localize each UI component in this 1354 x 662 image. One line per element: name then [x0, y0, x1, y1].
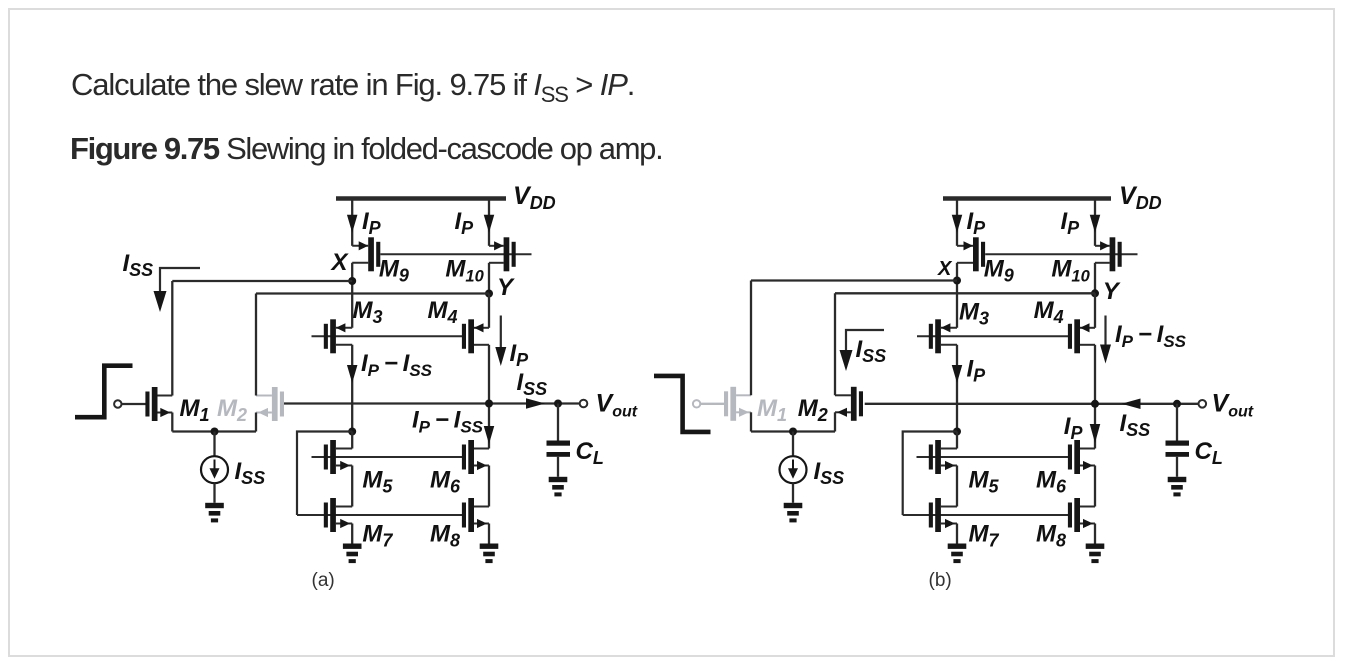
transistor M2 disabled gray (a)	[256, 387, 284, 421]
label Iss annotation (a)	[123, 250, 154, 280]
wire gate line M9-M10 (a)	[380, 253, 531, 255]
svg-text:M4: M4	[1034, 297, 1064, 327]
transistor M1 (a)	[145, 387, 172, 421]
label Iss tail (b)	[814, 458, 845, 488]
label Ip-Iss left branch (a)	[361, 350, 433, 380]
label Ip left branch (a)	[362, 208, 382, 238]
svg-text:X: X	[330, 249, 350, 276]
label Ip left branch current (b)	[967, 356, 987, 386]
current arrow Ip through M4 (a)	[495, 316, 506, 367]
wire output to capacitor CL (b)	[1176, 404, 1178, 441]
svg-text:M6: M6	[430, 466, 461, 496]
svg-text:M3: M3	[959, 299, 989, 329]
label Ip-Iss right branch (a)	[412, 407, 484, 437]
step input waveform (b)	[654, 376, 711, 432]
wire node Y to M4 source (a)	[488, 294, 490, 328]
transistor M5 (b)	[929, 440, 957, 474]
label Ip left branch (b)	[967, 208, 987, 238]
ground under M8 (b)	[1086, 544, 1105, 564]
wire M1 drain to node X branch (b)	[750, 281, 752, 396]
transistor M7 (a)	[324, 498, 352, 532]
transistor M2 (b)	[835, 387, 863, 421]
label M9 (a)	[379, 256, 409, 286]
transistor M10 (a)	[489, 237, 516, 271]
wire mirror node to M7 gate feedback (a)	[297, 432, 352, 516]
wire M2 source to tail (b)	[834, 412, 836, 431]
svg-text:IP: IP	[455, 208, 475, 238]
node CL junction (a)	[554, 400, 562, 408]
transistor M8 (a)	[462, 498, 489, 532]
svg-text:(a): (a)	[312, 570, 335, 591]
label M2 (b)	[798, 395, 828, 425]
label CL (a)	[576, 438, 604, 468]
label CL (b)	[1195, 438, 1223, 468]
svg-text:Y: Y	[497, 274, 515, 301]
wire VDD to M9 source with Ip current arrow (b)	[952, 201, 963, 246]
current arrow Iss from output (b)	[1122, 399, 1141, 410]
svg-text:M3: M3	[353, 297, 383, 327]
capacitor CL (b)	[1166, 441, 1190, 457]
wire output node to M6 drain with Ip arrow (b)	[1090, 404, 1101, 449]
wire gate line M5-M6 (b)	[917, 456, 1072, 458]
label M10 (b)	[1051, 256, 1090, 286]
label Ip right branch (a)	[455, 208, 475, 238]
svg-text:CL: CL	[576, 438, 604, 468]
svg-text:IP − ISS: IP − ISS	[361, 350, 433, 380]
current arrow Iss into M2 drain branch (b)	[840, 330, 885, 371]
svg-text:M9: M9	[379, 256, 409, 286]
current arrow Iss into M1 drain branch (a)	[154, 268, 201, 312]
svg-text:M10: M10	[445, 256, 484, 286]
wire tail node (a)	[172, 430, 256, 432]
figure caption text	[70, 131, 662, 167]
svg-text:M8: M8	[430, 521, 460, 551]
label Ip-Iss through M4 (b)	[1115, 321, 1187, 351]
wire capacitor to ground (a)	[557, 457, 559, 477]
wire input to M1 gate gray (b)	[700, 403, 725, 405]
wire output to capacitor CL (a)	[557, 404, 559, 441]
wire M7 source to ground (a)	[351, 524, 353, 544]
wire M10 drain to node Y (a)	[488, 263, 490, 294]
svg-text:Y: Y	[1103, 278, 1121, 305]
label M7 (b)	[969, 521, 1000, 551]
wire M5 source to M7 drain (b)	[956, 466, 958, 507]
label M6 (b)	[1036, 466, 1067, 496]
label Ip through M4 (a)	[510, 340, 530, 370]
svg-text:IP: IP	[1061, 208, 1081, 238]
node mirror diode junction (b)	[953, 428, 961, 436]
wire node Y to M2 drain branch (a)	[256, 292, 489, 294]
label M8 (a)	[430, 521, 460, 551]
wire node Y branch to M2 drain (b)	[834, 293, 836, 395]
label X (a)	[330, 249, 350, 276]
terminal Vout (a)	[580, 400, 588, 408]
node output junction (a)	[485, 400, 493, 408]
label Iss output (a)	[517, 369, 548, 399]
wire mirror node to M5 drain (b)	[956, 432, 958, 449]
transistor M9 (b)	[957, 237, 985, 271]
svg-text:ISS: ISS	[517, 369, 548, 399]
label M6 (a)	[430, 466, 461, 496]
problem statement text	[71, 67, 634, 103]
wire tail to current source (a)	[213, 432, 215, 457]
node Y (a)	[485, 290, 493, 298]
label Y (a)	[497, 274, 515, 301]
current source Iss (b)	[780, 456, 807, 483]
svg-text:M9: M9	[984, 256, 1014, 286]
svg-text:X: X	[937, 258, 953, 280]
svg-text:M6: M6	[1036, 466, 1067, 496]
caption (a)	[312, 570, 335, 591]
label Vout (b)	[1212, 390, 1254, 421]
wire VDD to M9 source with Ip current arrow (a)	[347, 201, 358, 246]
svg-text:IP: IP	[362, 208, 382, 238]
svg-text:Vout: Vout	[1212, 390, 1254, 421]
wire mirror node to M7 gate feedback (b)	[903, 432, 957, 516]
wire M1 source to tail (a)	[171, 413, 173, 432]
input terminal gray (b)	[693, 400, 700, 407]
wire node Y to M2 drain branch (b)	[835, 292, 1095, 294]
transistor M4 (b)	[1068, 319, 1095, 353]
label M1 gray (b)	[757, 395, 787, 425]
svg-text:M2: M2	[798, 395, 828, 425]
svg-text:ISS: ISS	[123, 250, 154, 280]
svg-text:ISS: ISS	[235, 458, 266, 488]
wire gate line M3-M4 (b)	[917, 335, 1071, 337]
label M9 (b)	[984, 256, 1014, 286]
ground under current source (a)	[205, 503, 224, 523]
svg-text:ISS: ISS	[814, 458, 845, 488]
svg-text:IP − ISS: IP − ISS	[412, 407, 484, 437]
label VDD (b)	[1119, 182, 1162, 213]
wire M9 drain to node X to M3 source (b)	[956, 263, 958, 328]
svg-text:M7: M7	[362, 521, 393, 551]
svg-text:VDD: VDD	[1119, 182, 1162, 213]
wire gate line M7-M8 (a)	[297, 514, 465, 516]
svg-text:M2: M2	[217, 395, 247, 425]
step input waveform (a)	[75, 366, 133, 418]
label M4 (b)	[1034, 297, 1064, 327]
svg-text:M8: M8	[1036, 521, 1066, 551]
wire M9 drain to node X to M3 source (a)	[351, 263, 353, 328]
wire M5 source to M7 drain (a)	[351, 466, 353, 507]
label VDD (a)	[513, 182, 556, 213]
ground under CL (b)	[1168, 477, 1187, 497]
wire M6 source to M8 drain (b)	[1094, 466, 1096, 507]
capacitor CL (a)	[547, 441, 571, 457]
wire M4 drain to output node (a)	[488, 345, 490, 404]
svg-text:M1: M1	[180, 395, 210, 425]
wire input to M1 gate (a)	[121, 403, 146, 405]
label Ip right branch current (b)	[1064, 413, 1084, 443]
wire M4 drain to output node (b)	[1094, 345, 1096, 404]
wire M1 source to tail (b)	[750, 412, 752, 431]
ground under M7 (b)	[948, 544, 967, 564]
node Y (b)	[1091, 289, 1099, 297]
current source Iss (a)	[201, 456, 228, 483]
label M5 (b)	[969, 466, 1000, 496]
transistor M9 (a)	[352, 237, 380, 271]
wire node Y branch to M2 drain (a)	[255, 294, 257, 396]
label M3 (a)	[353, 297, 383, 327]
svg-text:M1: M1	[757, 395, 787, 425]
svg-text:M7: M7	[969, 521, 1000, 551]
wire node Y to M4 source (b)	[1094, 293, 1096, 328]
node X (a)	[348, 277, 356, 285]
wire M6 source to M8 drain (a)	[488, 466, 490, 507]
current arrow Ip-Iss through M4 (b)	[1100, 316, 1111, 364]
ground under current source (b)	[784, 503, 803, 523]
node output junction (b)	[1091, 400, 1099, 408]
svg-text:M5: M5	[362, 466, 393, 496]
wire output node to M6 drain with Ip-Iss arrow (a)	[484, 404, 495, 449]
wire gate line M7-M8 (b)	[903, 514, 1071, 516]
wire M8 source to ground (a)	[488, 524, 490, 544]
svg-text:CL: CL	[1195, 438, 1223, 468]
svg-text:(b): (b)	[929, 570, 952, 591]
label Ip right branch (b)	[1061, 208, 1081, 238]
svg-text:IP: IP	[510, 340, 530, 370]
transistor M10 (b)	[1095, 237, 1122, 271]
ground under M7 (a)	[343, 544, 362, 564]
svg-text:M4: M4	[428, 297, 458, 327]
label M8 (b)	[1036, 521, 1066, 551]
wire M7 source to ground (b)	[956, 524, 958, 544]
wire M10 drain to node Y (b)	[1094, 263, 1096, 294]
ground under M8 (a)	[480, 544, 499, 564]
svg-text:IP: IP	[967, 208, 987, 238]
wire M1 drain to node X branch (a)	[171, 281, 173, 396]
wire gate line M5-M6 (a)	[312, 456, 466, 458]
wire gate line M3-M4 (a)	[312, 335, 466, 337]
label Iss tail (a)	[235, 458, 266, 488]
wire current source to ground (a)	[213, 483, 215, 503]
wire current source to ground (b)	[792, 483, 794, 503]
label M2 gray (a)	[217, 395, 247, 425]
label Vout (a)	[596, 390, 638, 421]
transistor M8 (b)	[1068, 498, 1095, 532]
label X (b)	[937, 258, 953, 280]
wire mirror node to M5 drain (a)	[351, 432, 353, 449]
label Iss annotation M2 drain (b)	[856, 336, 887, 366]
label M1 (a)	[180, 395, 210, 425]
label M7 (a)	[362, 521, 393, 551]
node tail junction (a)	[211, 428, 219, 436]
transistor M3 (b)	[929, 319, 957, 353]
svg-text:IP: IP	[1064, 413, 1084, 443]
node CL junction (b)	[1173, 400, 1181, 408]
node mirror diode junction (a)	[348, 428, 356, 436]
svg-text:IP: IP	[967, 356, 987, 386]
label M4 (a)	[428, 297, 458, 327]
svg-text:IP − ISS: IP − ISS	[1115, 321, 1187, 351]
wire VDD to M10 source with Ip current arrow (a)	[484, 201, 495, 246]
wire M8 source to ground (b)	[1094, 524, 1096, 544]
ground under CL (a)	[549, 477, 568, 497]
svg-text:VDD: VDD	[513, 182, 556, 213]
wire node X to M1 drain branch (a)	[172, 280, 352, 282]
wire VDD to M10 source with Ip current arrow (b)	[1090, 201, 1101, 246]
wire output line M2 gate to Vout (a)	[284, 402, 580, 404]
input terminal (a)	[114, 400, 121, 407]
label M10 (a)	[445, 256, 484, 286]
label Iss output (b)	[1120, 410, 1151, 440]
wire tail to current source (b)	[792, 432, 794, 457]
label M3 (b)	[959, 299, 989, 329]
svg-text:M10: M10	[1051, 256, 1090, 286]
svg-text:ISS: ISS	[856, 336, 887, 366]
power rail VDD (b)	[943, 196, 1111, 200]
node X (b)	[953, 277, 961, 285]
transistor M3 (a)	[324, 319, 352, 353]
wire tail node (b)	[751, 430, 835, 432]
transistor M4 (a)	[462, 319, 489, 353]
transistor M7 (b)	[929, 498, 957, 532]
svg-text:M5: M5	[969, 466, 1000, 496]
wire output line M2 gate to Vout (b)	[865, 403, 1199, 405]
transistor M1 disabled gray (b)	[724, 387, 751, 421]
node tail junction (b)	[789, 428, 797, 436]
current arrow Iss to output (a)	[526, 398, 545, 409]
transistor M6 (b)	[1068, 440, 1095, 474]
svg-text:ISS: ISS	[1120, 410, 1151, 440]
transistor M6 (a)	[462, 440, 489, 474]
wire node X to M1 drain branch (b)	[751, 279, 957, 281]
power rail VDD (a)	[336, 196, 506, 200]
label Y (b)	[1103, 278, 1121, 305]
terminal Vout (b)	[1199, 400, 1207, 408]
wire M3 drain to mirror node with Ip-Iss arrow (a)	[347, 345, 358, 432]
caption (b)	[929, 570, 952, 591]
transistor M5 (a)	[324, 440, 352, 474]
wire M2 source to tail (a)	[255, 413, 257, 432]
wire M3 drain to mirror node with Ip arrow (b)	[952, 345, 963, 432]
wire gate line M9-M10 (b)	[985, 253, 1137, 255]
svg-text:Vout: Vout	[596, 390, 638, 421]
wire capacitor to ground (b)	[1176, 457, 1178, 477]
label M5 (a)	[362, 466, 393, 496]
